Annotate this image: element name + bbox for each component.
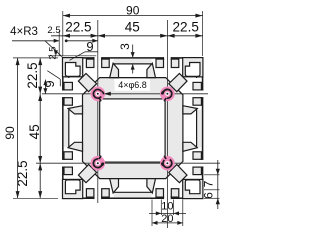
svg-text:22.5: 22.5	[15, 160, 30, 186]
svg-text:9: 9	[86, 39, 93, 54]
svg-text:2.5: 2.5	[47, 25, 60, 36]
svg-text:10: 10	[161, 200, 173, 212]
svg-text:4×φ6.8: 4×φ6.8	[118, 80, 147, 90]
svg-text:22.5: 22.5	[25, 62, 40, 88]
svg-text:90: 90	[126, 4, 140, 18]
svg-text:3: 3	[118, 43, 132, 50]
svg-text:45: 45	[125, 19, 140, 34]
svg-text:4×R3: 4×R3	[10, 26, 38, 38]
svg-text:6: 6	[201, 192, 215, 199]
svg-text:22.5: 22.5	[173, 19, 199, 34]
svg-text:22.5: 22.5	[65, 19, 91, 34]
svg-text:7: 7	[201, 180, 215, 187]
svg-text:90: 90	[3, 126, 17, 140]
svg-text:45: 45	[27, 124, 42, 139]
svg-text:20: 20	[161, 213, 173, 225]
